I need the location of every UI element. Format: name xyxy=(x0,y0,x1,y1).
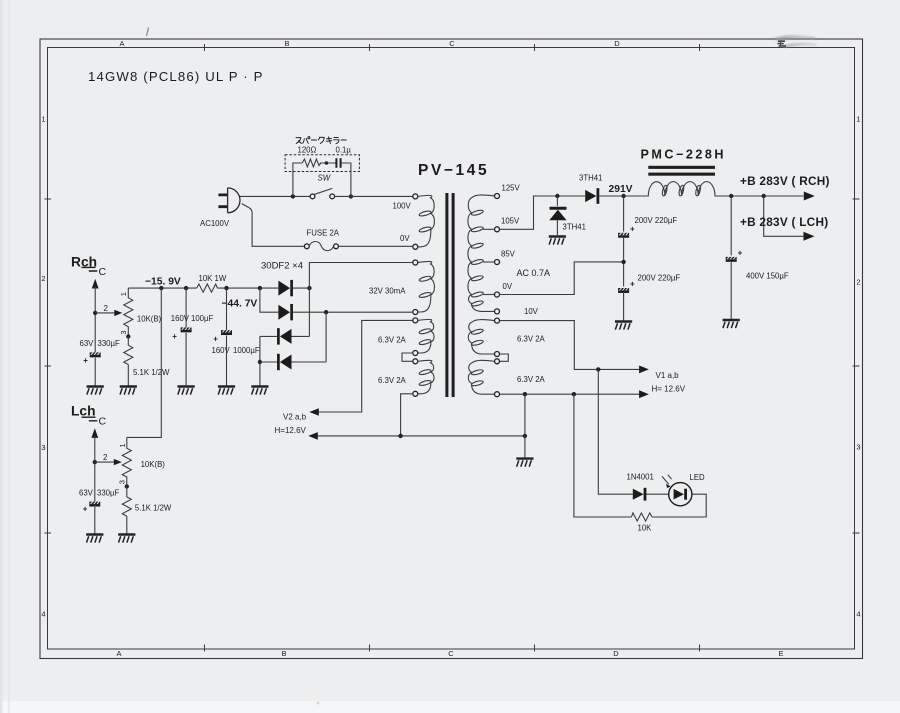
svg-text:3: 3 xyxy=(119,330,128,334)
transformer T1 core xyxy=(445,193,448,397)
wire resistor to cap xyxy=(320,162,337,164)
wire D4 anode drop xyxy=(260,288,278,312)
arrow H right xyxy=(639,390,649,398)
winding 6.3V 2A right lower xyxy=(468,360,494,394)
svg-text:10K(B): 10K(B) xyxy=(141,460,166,469)
wire plug down to fuse line (neutral) xyxy=(242,204,305,247)
svg-text:SW: SW xyxy=(318,174,331,183)
diode D2 3TH41 shunt xyxy=(549,196,566,235)
winding 6.3V 2A left upper xyxy=(418,319,434,353)
wire cap to right riser xyxy=(341,163,351,196)
wire V2 heater line xyxy=(318,320,413,412)
node H right ground column xyxy=(523,392,527,396)
svg-text:63V: 63V xyxy=(79,488,94,497)
node 400V cap junction xyxy=(729,194,733,198)
svg-text:10K(B): 10K(B) xyxy=(137,315,162,324)
wire C7 to ground xyxy=(94,507,96,534)
node spark-killer right on hot wire xyxy=(349,194,353,198)
node H left jog xyxy=(398,434,402,438)
spark killer dashed enclosure xyxy=(285,155,359,172)
wire choke to +B RCH arrow xyxy=(731,195,804,197)
ground under C3 xyxy=(723,320,740,328)
svg-text:1: 1 xyxy=(118,443,127,447)
terminal 6.3V left upper top xyxy=(413,318,418,323)
node LED branch on V1 xyxy=(596,367,600,371)
svg-text:+B 283V ( RCH): +B 283V ( RCH) xyxy=(740,174,830,188)
resistor R2 5.1K 1/2W xyxy=(124,345,133,364)
wire LCH branch xyxy=(764,196,804,236)
resistor R1 10K 1W xyxy=(197,284,218,292)
wire VR2 to R3 xyxy=(126,486,128,497)
wire C4 to ground xyxy=(94,358,96,386)
svg-text:C: C xyxy=(99,266,107,278)
svg-text:+B 283V ( LCH): +B 283V ( LCH) xyxy=(740,215,828,229)
svg-text:+: + xyxy=(630,280,635,289)
wire V1 node down to 1N4001 xyxy=(598,369,632,494)
svg-text:1N4001: 1N4001 xyxy=(627,473,654,482)
terminal 6.3V left lower bottom xyxy=(413,391,418,396)
wire C6 to ground xyxy=(226,336,228,386)
svg-text:160V: 160V xyxy=(171,314,190,323)
svg-text:5.1K 1/2W: 5.1K 1/2W xyxy=(135,504,172,513)
svg-text:AC100V: AC100V xyxy=(200,219,230,228)
winding 6.3V 2A left lower xyxy=(418,360,434,394)
svg-text:FUSE 2A: FUSE 2A xyxy=(307,229,340,238)
svg-text:3: 3 xyxy=(856,443,860,452)
svg-text:0V: 0V xyxy=(400,234,410,243)
svg-text:+: + xyxy=(83,505,88,514)
node shunt diode on HV rail xyxy=(555,194,559,198)
svg-text:5.1K 1/2W: 5.1K 1/2W xyxy=(133,368,170,377)
ground under C4 xyxy=(87,387,104,395)
svg-text:10V: 10V xyxy=(524,307,539,316)
wire R2 to ground xyxy=(127,365,129,386)
wire 291V node down to C1 xyxy=(623,196,625,232)
svg-text:AC 0.7A: AC 0.7A xyxy=(517,268,551,278)
ground under R3 xyxy=(118,535,135,543)
svg-text:+: + xyxy=(213,335,218,344)
tap stub 85V xyxy=(483,261,495,263)
node H right LED return xyxy=(572,392,576,396)
svg-text:63V: 63V xyxy=(80,339,95,348)
wire Lch riser xyxy=(127,288,162,437)
wire switch to 100V terminal xyxy=(335,195,413,197)
diode D1 3TH41 series xyxy=(585,188,623,204)
resistor 120Ω xyxy=(302,159,321,167)
node D3 anode junction xyxy=(258,286,262,290)
terminal 10V xyxy=(495,309,500,314)
underline Rch xyxy=(82,267,98,271)
terminal 125V xyxy=(495,194,500,199)
underline Lch xyxy=(82,417,98,421)
svg-text:2: 2 xyxy=(41,274,45,283)
svg-text:LED: LED xyxy=(690,473,706,482)
capacitor C4 63V 330µF xyxy=(90,352,101,356)
wire Rch wiper xyxy=(95,312,115,314)
wire D3 junction down to D5 xyxy=(308,288,310,336)
svg-text:6.3V 2A: 6.3V 2A xyxy=(378,376,407,385)
node C6 junction xyxy=(224,286,228,290)
row labels right xyxy=(856,115,860,619)
svg-text:120Ω: 120Ω xyxy=(298,146,317,155)
ground under C5 xyxy=(178,387,195,395)
svg-text:PMC−228H: PMC−228H xyxy=(641,148,726,162)
resistor R4 10K xyxy=(631,513,652,521)
wire heater ground column xyxy=(524,394,526,457)
terminal 6.3V right lower bottom xyxy=(495,392,500,397)
wire C5 to ground xyxy=(185,333,187,386)
svg-text:D: D xyxy=(614,39,620,48)
svg-text:200V 220µF: 200V 220µF xyxy=(638,274,681,283)
svg-text:PV−145: PV−145 xyxy=(418,162,489,179)
wire fuse to 0V terminal xyxy=(338,245,412,247)
wire D6 anode riser xyxy=(325,312,327,362)
wire D3 cathode to 32V top xyxy=(309,263,412,289)
diode D5 30DF2 xyxy=(260,328,310,344)
svg-text:V1 a,b: V1 a,b xyxy=(656,371,680,380)
svg-text:+: + xyxy=(172,332,177,341)
svg-text:E: E xyxy=(778,649,783,658)
svg-text:1: 1 xyxy=(119,292,128,296)
terminal 0V primary xyxy=(413,244,418,249)
svg-text:330µF: 330µF xyxy=(97,488,120,497)
choke L1 core bars xyxy=(648,166,715,169)
ground heater column xyxy=(516,459,533,467)
arrow +B RCH xyxy=(804,192,815,201)
wire 400V cap branch xyxy=(730,196,732,255)
svg-text:D: D xyxy=(613,649,619,658)
wire Rch output column xyxy=(94,287,96,353)
wire C2 to ground xyxy=(623,292,625,320)
border ticks xyxy=(45,44,860,652)
svg-text:200V 220µF: 200V 220µF xyxy=(635,216,678,225)
terminal 85V xyxy=(495,260,500,265)
terminal 32V bottom xyxy=(413,310,418,315)
node doubler midpoint xyxy=(621,260,625,264)
arrow V1 xyxy=(639,366,649,374)
ground under shunt diode xyxy=(549,237,566,245)
AC plug P1 xyxy=(218,188,240,213)
node VR1 bottom xyxy=(126,334,130,338)
svg-text:H=12.6V: H=12.6V xyxy=(275,426,307,435)
terminal 105V xyxy=(495,227,500,232)
resistor R3 5.1K 1/2W xyxy=(122,497,131,516)
svg-text:32V 30mA: 32V 30mA xyxy=(369,287,406,296)
node spark-killer left on hot wire xyxy=(291,194,295,198)
arrow H left xyxy=(308,432,318,440)
svg-text:B: B xyxy=(284,39,289,48)
wire -15.9V rail xyxy=(128,287,278,289)
svg-text:C: C xyxy=(448,649,454,658)
svg-text:30DF2 ×4: 30DF2 ×4 xyxy=(261,261,303,272)
wire LED to return xyxy=(652,494,706,517)
wire 10K to H line xyxy=(574,394,632,517)
diode D6 30DF2 xyxy=(260,354,326,370)
arrow +B LCH xyxy=(804,232,815,241)
column labels top xyxy=(119,39,784,48)
svg-text:A: A xyxy=(116,649,121,658)
wire R3 to ground xyxy=(126,516,128,533)
svg-text:100V: 100V xyxy=(393,202,412,211)
arrow Rch wiper xyxy=(114,310,122,316)
svg-text:A: A xyxy=(119,39,124,48)
capacitor C7 63V 330µF xyxy=(89,501,100,505)
node Lch riser xyxy=(159,286,163,290)
svg-text:0.1µ: 0.1µ xyxy=(336,146,352,155)
ground under D5 D6 xyxy=(251,387,268,395)
ground under C6 xyxy=(218,387,235,395)
wire H right heater line xyxy=(500,393,640,395)
node H left ground column xyxy=(523,434,527,438)
svg-text:3: 3 xyxy=(41,443,45,452)
wire Lch output column xyxy=(94,436,96,501)
wire plug to switch (hot) xyxy=(240,195,310,197)
row labels left xyxy=(41,115,45,619)
ground under C2 xyxy=(615,322,632,330)
svg-text:+: + xyxy=(738,248,743,257)
node inside spark killer xyxy=(325,161,329,165)
winding secondary HV 125V-10V xyxy=(468,195,495,311)
switch SW xyxy=(310,188,335,198)
svg-text:291V: 291V xyxy=(609,184,633,195)
wire C1 to mid node xyxy=(623,237,625,287)
node D6 cathode junction xyxy=(258,360,262,364)
svg-text:14GW8 (PCL86) UL P · P: 14GW8 (PCL86) UL P · P xyxy=(88,69,264,84)
winding 6.3V 2A right upper xyxy=(468,320,494,354)
node LCH branch junction xyxy=(762,194,766,198)
svg-text:−15. 9V: −15. 9V xyxy=(145,276,181,287)
diode D3 30DF2 xyxy=(278,280,309,296)
arrow Rch -C output xyxy=(92,279,99,289)
capacitor 0.1µ xyxy=(336,158,340,168)
fuse F1 xyxy=(304,242,338,251)
tap stub 0V xyxy=(483,294,495,296)
svg-text:10K 1W: 10K 1W xyxy=(199,274,227,283)
node Lch wiper junction xyxy=(93,460,97,464)
svg-text:1: 1 xyxy=(856,115,860,124)
svg-text:3: 3 xyxy=(117,480,126,484)
svg-text:+: + xyxy=(83,356,88,365)
svg-text:400V 150µF: 400V 150µF xyxy=(746,272,789,281)
svg-text:C: C xyxy=(99,416,107,428)
svg-text:160V: 160V xyxy=(212,346,231,355)
svg-text:C: C xyxy=(449,39,455,48)
svg-text:3TH41: 3TH41 xyxy=(563,223,586,232)
winding primary 100V-0V xyxy=(418,195,435,246)
node D3 cathode junction xyxy=(307,286,311,290)
capacitor C1 200V 220µF xyxy=(618,233,629,237)
svg-text:6.3V 2A: 6.3V 2A xyxy=(517,335,546,344)
node C5 junction xyxy=(184,286,188,290)
svg-text:6.3V 2A: 6.3V 2A xyxy=(378,336,407,345)
terminal 32V top xyxy=(413,260,418,265)
terminal 6.3V left upper bottom xyxy=(413,351,418,356)
ground under C7 xyxy=(86,535,103,543)
svg-text:4: 4 xyxy=(856,610,860,619)
node VR2 bottom xyxy=(125,484,129,488)
arrow Lch -C output xyxy=(91,428,98,438)
LED LD1 xyxy=(662,475,692,506)
capacitor C3 400V 150µF xyxy=(726,257,737,261)
diode D7 1N4001 xyxy=(633,488,669,501)
svg-text:4: 4 xyxy=(41,610,45,619)
terminal 6.3V right upper top xyxy=(495,318,500,323)
svg-text:85V: 85V xyxy=(501,250,516,259)
potentiometer VR2 10K(B) xyxy=(122,437,131,486)
label スパークキラー xyxy=(296,137,346,144)
svg-text:2: 2 xyxy=(103,453,108,462)
svg-text:6.3V 2A: 6.3V 2A xyxy=(517,375,546,384)
scan smudge top right xyxy=(772,35,818,47)
wire VR1 to R2 xyxy=(127,337,129,346)
wire C3 to ground xyxy=(730,261,732,319)
svg-text:+: + xyxy=(630,225,635,234)
arrow V2 xyxy=(309,408,319,416)
capacitor C5 160V 100µF xyxy=(185,288,187,327)
node D4 cathode junction xyxy=(324,310,328,314)
terminal 100V xyxy=(413,194,418,199)
diode D4 30DF2 xyxy=(278,304,412,320)
svg-text:10K: 10K xyxy=(638,524,653,533)
terminal 0V secondary xyxy=(495,292,500,297)
wire 105V tap riser to HV rail xyxy=(500,196,586,229)
terminal 6.3V left lower top xyxy=(413,359,418,364)
wire spark-killer left riser xyxy=(293,163,302,196)
capacitor C6 160V 1000µF xyxy=(226,288,228,330)
terminal 6.3V right lower top xyxy=(495,359,500,364)
svg-text:0V: 0V xyxy=(503,282,513,291)
choke L1 winding xyxy=(624,182,732,197)
tap stub 105V xyxy=(483,228,495,230)
svg-text:1: 1 xyxy=(41,115,45,124)
potentiometer VR1 10K(B) xyxy=(124,288,133,336)
scan stray mark top left xyxy=(147,28,149,37)
svg-text:V2 a,b: V2 a,b xyxy=(283,413,307,422)
border frame outer xyxy=(40,39,863,659)
svg-text:3TH41: 3TH41 xyxy=(579,174,602,183)
wire V1 heater line xyxy=(500,321,640,370)
svg-text:100µF: 100µF xyxy=(191,314,214,323)
svg-text:105V: 105V xyxy=(501,217,520,226)
capacitor C2 200V 220µF xyxy=(618,288,629,292)
svg-text:2: 2 xyxy=(104,304,109,313)
node Rch wiper junction xyxy=(93,311,97,315)
ground under R2 xyxy=(120,387,137,395)
node 291V xyxy=(621,194,625,198)
terminal 6.3V right upper bottom xyxy=(495,352,500,357)
arrow Lch wiper xyxy=(114,459,122,465)
svg-text:Lch: Lch xyxy=(71,404,96,419)
svg-text:330µF: 330µF xyxy=(98,339,121,348)
wire jog right 6.3V windings series link xyxy=(499,354,508,361)
wire H left heater line xyxy=(317,394,525,436)
svg-text:1000µF: 1000µF xyxy=(233,346,260,355)
svg-text:125V: 125V xyxy=(502,184,521,193)
wire jog left 6.3V windings series link xyxy=(402,353,413,361)
wire 0V secondary to doubler midpoint xyxy=(500,262,622,295)
svg-text:B: B xyxy=(281,649,286,658)
column labels bottom xyxy=(116,649,783,658)
wire Lch wiper xyxy=(95,461,115,463)
svg-text:2: 2 xyxy=(856,278,860,287)
wire D5 cathode column to ground xyxy=(259,336,261,385)
winding 32V 30mA xyxy=(418,261,435,312)
svg-text:H= 12.6V: H= 12.6V xyxy=(652,385,686,394)
border frame inner xyxy=(48,48,855,650)
